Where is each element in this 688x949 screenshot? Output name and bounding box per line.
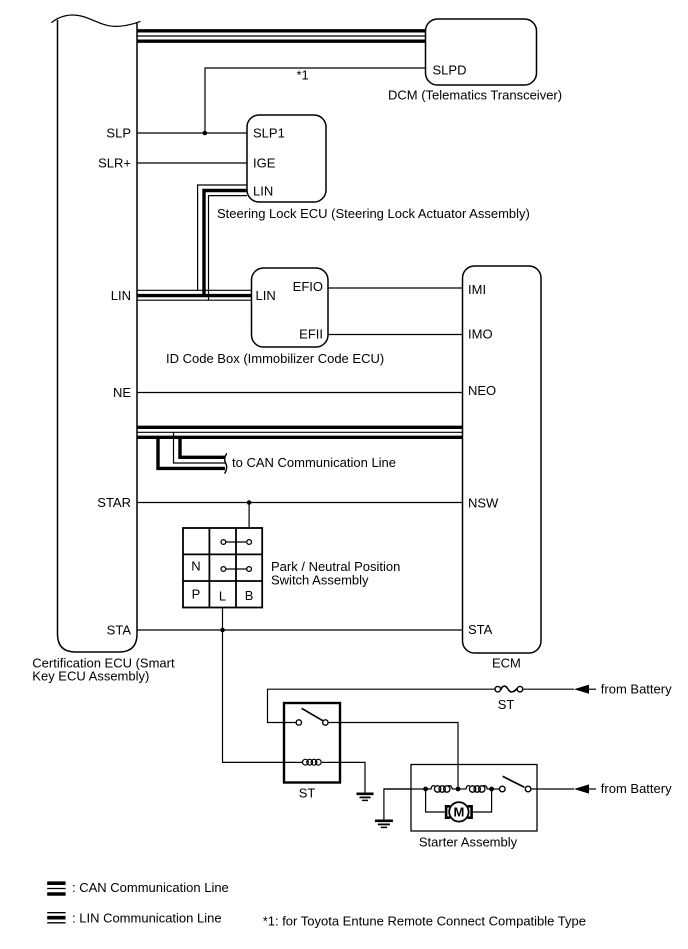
starter assembly box: [411, 765, 537, 832]
svg-text:SLPD: SLPD: [433, 63, 467, 78]
starter motor wires: [426, 789, 445, 812]
svg-text:NE: NE: [113, 385, 131, 400]
steering lock ECU box: [247, 115, 326, 202]
junction dot on SLP wire: [203, 131, 208, 136]
svg-text:M: M: [453, 805, 464, 820]
switch contacts row 1: [221, 540, 226, 545]
wire STA: [137, 629, 463, 631]
svg-text:Starter Assembly: Starter Assembly: [419, 835, 518, 850]
svg-text:ID Code Box (Immobilizer Code: ID Code Box (Immobilizer Code ECU): [166, 351, 384, 366]
svg-text:from Battery: from Battery: [601, 781, 672, 796]
svg-text:: CAN Communication Line: : CAN Communication Line: [72, 880, 229, 895]
starter main wire: [384, 788, 432, 790]
svg-text:Steering Lock ECU (Steering Lo: Steering Lock ECU (Steering Lock Actuato…: [217, 206, 530, 221]
starter coil 1: [431, 786, 452, 793]
svg-text:: LIN Communication Line: : LIN Communication Line: [72, 910, 222, 925]
ground 2: [375, 821, 393, 828]
svg-text:*1: *1: [297, 68, 309, 83]
svg-text:LIN: LIN: [111, 288, 131, 303]
relay ST box: [284, 703, 340, 783]
ECM box: [463, 266, 542, 653]
svg-text:SLP: SLP: [106, 126, 131, 141]
wire *1: SLP junction to DCM: [205, 68, 426, 133]
svg-text:Key ECU Assembly): Key ECU Assembly): [32, 668, 149, 683]
starter coil 2: [466, 786, 487, 793]
junction dot STAR: [247, 500, 252, 505]
wire EFII to IMO: [328, 334, 463, 336]
svg-text:NSW: NSW: [468, 496, 499, 511]
wire SLR+: [137, 162, 247, 164]
svg-text:P: P: [192, 587, 201, 602]
wire starter to ground 2: [384, 789, 411, 820]
wire fuse to battery arrow: [524, 688, 574, 690]
LIN bus: steering lock to LIN bus (thin-thick-thin): [198, 185, 247, 290]
wire EFIO to IMI: [328, 287, 463, 289]
starter switch: [500, 786, 506, 792]
fuse ST: [495, 686, 501, 692]
svg-text:ST: ST: [299, 786, 316, 801]
wire SLP: [137, 132, 247, 134]
junction dot starter left: [423, 787, 428, 792]
svg-text:IGE: IGE: [253, 156, 276, 171]
svg-text:STAR: STAR: [97, 495, 131, 510]
svg-text:SLR+: SLR+: [98, 156, 131, 171]
wire NE to NEO: [137, 392, 463, 394]
wire fuse to relay switch: [268, 689, 495, 722]
svg-text:EFII: EFII: [299, 327, 323, 342]
starter motor M: [449, 802, 468, 821]
svg-text:NEO: NEO: [468, 383, 496, 398]
svg-text:SLP1: SLP1: [253, 126, 285, 141]
motor bracket left: [446, 806, 450, 817]
wire L column to STA wire: [222, 608, 224, 631]
ground 1: [357, 794, 374, 801]
svg-text:IMI: IMI: [468, 282, 486, 297]
svg-text:Switch Assembly: Switch Assembly: [271, 572, 369, 587]
svg-text:IMO: IMO: [468, 327, 493, 342]
wire STAR junction to switch grid: [248, 503, 250, 529]
junction dot starter right: [489, 787, 494, 792]
junction dot STA: [220, 628, 225, 633]
CAN bus top: cert ECU to DCM: [137, 29, 426, 32]
ID code box: [252, 268, 329, 347]
svg-text:ECM: ECM: [492, 656, 521, 671]
svg-text:DCM (Telematics Transceiver): DCM (Telematics Transceiver): [388, 88, 562, 103]
CAN branch stub: [158, 436, 225, 468]
CAN bus: cert ECU to ECM: [137, 426, 463, 429]
junction dot starter mid: [456, 787, 461, 792]
svg-text:STA: STA: [468, 622, 493, 637]
legend LIN symbol: [47, 913, 65, 923]
svg-text:ST: ST: [498, 697, 515, 712]
relay switch: [296, 720, 301, 725]
wire relay switch to starter: [328, 723, 458, 790]
certification ECU wavy top edge: [51, 15, 140, 26]
LIN bus: cert ECU to ID code box: [137, 289, 252, 291]
svg-text:LIN: LIN: [253, 184, 273, 199]
svg-text:B: B: [245, 588, 254, 603]
arrow from battery 2: [574, 784, 589, 793]
wire relay coil to ground 1: [322, 762, 365, 793]
motor bracket right: [468, 806, 472, 817]
svg-text:STA: STA: [107, 622, 132, 637]
svg-text:L: L: [219, 589, 226, 604]
svg-text:LIN: LIN: [256, 288, 276, 303]
svg-text:EFIO: EFIO: [293, 279, 323, 294]
arrow from battery 1: [574, 685, 589, 694]
svg-text:*1: for Toyota Entune Remote C: *1: for Toyota Entune Remote Connect Com…: [263, 914, 586, 929]
DCM box: [426, 19, 537, 85]
wire STA junction to relay coil: [223, 630, 303, 762]
park/neutral switch grid: [183, 528, 262, 608]
wire starter switch to battery arrow: [531, 788, 574, 790]
certification ECU box (Smart Key ECU): [58, 20, 138, 652]
branch end flare: [225, 453, 227, 473]
svg-text:N: N: [191, 559, 200, 574]
wire STAR to NSW: [137, 502, 463, 504]
legend CAN symbol: [47, 883, 65, 894]
svg-text:from Battery: from Battery: [601, 681, 672, 696]
svg-text:to CAN Communication Line: to CAN Communication Line: [232, 455, 396, 470]
relay coil: [303, 759, 322, 765]
switch contacts row 2: [221, 567, 226, 572]
